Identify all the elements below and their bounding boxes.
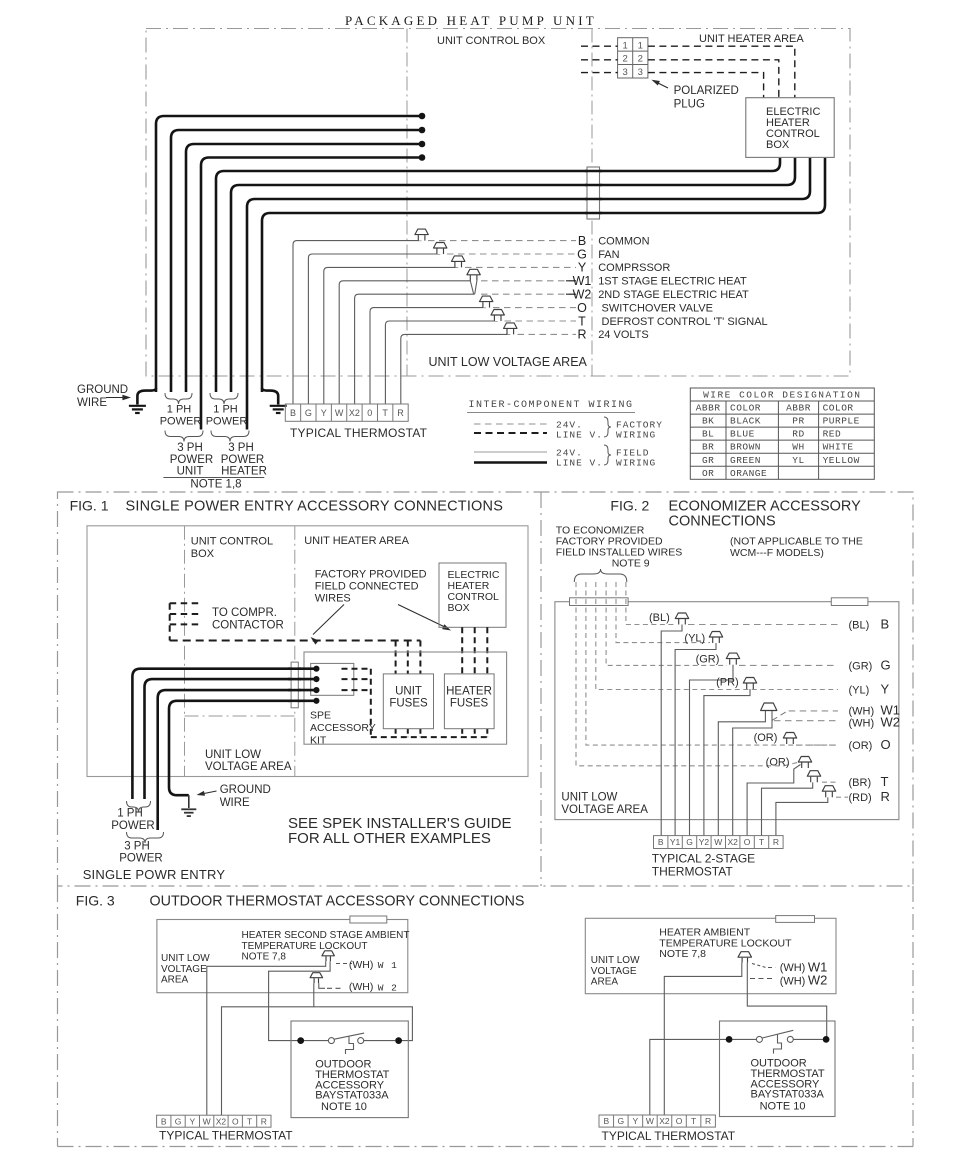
svg-text:(PR): (PR): [716, 677, 739, 689]
svg-text:X2: X2: [659, 1116, 670, 1126]
svg-text:R: R: [705, 1116, 711, 1126]
svg-text:0: 0: [367, 408, 372, 418]
svg-text:NOTE 10: NOTE 10: [321, 1101, 367, 1113]
svg-text:(GR): (GR): [696, 654, 720, 666]
svg-text:UNIT: UNIT: [177, 466, 204, 478]
svg-text:(NOT APPLICABLE TO THE: (NOT APPLICABLE TO THE: [730, 536, 863, 548]
svg-text:COLOR: COLOR: [730, 403, 761, 414]
svg-text:1: 1: [638, 40, 643, 51]
svg-text:(WH): (WH): [349, 981, 374, 993]
svg-text:W: W: [714, 837, 722, 847]
svg-text:WIRE: WIRE: [77, 397, 107, 409]
svg-text:TYPICAL 2-STAGE: TYPICAL 2-STAGE: [652, 852, 755, 866]
svg-text:BLACK: BLACK: [730, 416, 761, 427]
svg-text:B: B: [603, 1116, 609, 1126]
svg-text:AREA: AREA: [161, 975, 189, 986]
svg-text:W: W: [646, 1116, 654, 1126]
svg-text:GREEN: GREEN: [730, 455, 761, 466]
svg-text:WHITE: WHITE: [823, 442, 854, 453]
svg-text:SINGLE POWR ENTRY: SINGLE POWR ENTRY: [83, 867, 226, 882]
svg-text:W 1: W 1: [378, 960, 398, 971]
svg-text:OUTDOOR THERMOSTAT ACCESSORY C: OUTDOOR THERMOSTAT ACCESSORY CONNECTIONS: [150, 894, 525, 910]
svg-text:BROWN: BROWN: [730, 442, 761, 453]
svg-text:(GR): (GR): [849, 661, 873, 673]
svg-text:W: W: [203, 1116, 211, 1126]
svg-text:R: R: [577, 328, 586, 342]
svg-text:PURPLE: PURPLE: [823, 416, 860, 427]
svg-text:3: 3: [622, 67, 627, 78]
svg-text:(BL): (BL): [849, 620, 870, 632]
svg-text:R: R: [881, 789, 890, 804]
svg-text:X2: X2: [216, 1116, 227, 1126]
svg-text:ABBR: ABBR: [696, 403, 721, 414]
svg-text:OR: OR: [702, 468, 714, 479]
svg-text:T: T: [247, 1116, 252, 1126]
svg-text:(WH): (WH): [780, 962, 806, 974]
svg-text:3 PH: 3 PH: [124, 841, 150, 853]
svg-text:WIRING: WIRING: [616, 458, 656, 469]
svg-text:B: B: [658, 837, 664, 847]
svg-text:HEATER SECOND STAGE AMBIENT: HEATER SECOND STAGE AMBIENT: [242, 930, 410, 941]
svg-text:(WH): (WH): [849, 706, 875, 718]
svg-text:UNIT CONTROL BOX: UNIT CONTROL BOX: [437, 35, 546, 47]
svg-text:O: O: [676, 1116, 683, 1126]
svg-text:B: B: [881, 617, 890, 632]
svg-text:YL: YL: [792, 455, 804, 466]
svg-text:GROUND: GROUND: [220, 784, 271, 796]
svg-text:BL: BL: [702, 429, 714, 440]
svg-text:FAN: FAN: [598, 249, 619, 261]
svg-text:W 2: W 2: [378, 982, 398, 993]
svg-text:G: G: [881, 658, 891, 673]
svg-text:BAYSTAT033A: BAYSTAT033A: [751, 1089, 825, 1101]
svg-text:POWER: POWER: [221, 454, 264, 466]
svg-text:FIG. 1: FIG. 1: [70, 498, 109, 514]
svg-text:ORANGE: ORANGE: [730, 468, 767, 479]
svg-text:UNIT: UNIT: [395, 686, 422, 698]
svg-text:WIRING: WIRING: [616, 430, 656, 441]
svg-text:(BL): (BL): [649, 612, 670, 624]
svg-text:G: G: [618, 1116, 625, 1126]
svg-text:SINGLE POWER ENTRY ACCESSORY C: SINGLE POWER ENTRY ACCESSORY CONNECTIONS: [126, 499, 504, 515]
svg-text:NOTE 7,8: NOTE 7,8: [659, 948, 706, 960]
svg-text:3 PH: 3 PH: [177, 442, 203, 454]
svg-text:G: G: [577, 247, 587, 261]
svg-text:BOX: BOX: [448, 602, 470, 614]
svg-text:WH: WH: [792, 442, 804, 453]
svg-text:W: W: [335, 408, 344, 418]
svg-text:RED: RED: [823, 429, 842, 440]
svg-text:BK: BK: [702, 416, 714, 427]
svg-text:1: 1: [622, 40, 627, 51]
svg-text:UNIT LOW: UNIT LOW: [591, 955, 640, 966]
svg-text:Y: Y: [633, 1116, 639, 1126]
svg-text:TYPICAL THERMOSTAT: TYPICAL THERMOSTAT: [159, 1129, 293, 1143]
svg-text:RD: RD: [792, 429, 804, 440]
svg-text:CONNECTIONS: CONNECTIONS: [669, 514, 776, 530]
svg-text:FIG. 2: FIG. 2: [610, 498, 649, 514]
svg-text:(OR): (OR): [849, 740, 873, 752]
svg-text:W2: W2: [881, 715, 901, 730]
svg-text:(WH): (WH): [349, 959, 374, 971]
svg-text:CONTACTOR: CONTACTOR: [212, 620, 284, 632]
svg-text:VOLTAGE AREA: VOLTAGE AREA: [561, 804, 648, 816]
svg-text:3 PH: 3 PH: [228, 442, 254, 454]
svg-text:PR: PR: [792, 416, 804, 427]
svg-text:T: T: [382, 408, 388, 418]
svg-text:B: B: [578, 234, 586, 248]
svg-text:Y1: Y1: [670, 837, 681, 847]
svg-text:1 PH: 1 PH: [213, 404, 238, 416]
svg-text:BAYSTAT033A: BAYSTAT033A: [315, 1090, 389, 1102]
svg-text:FIELD CONNECTED: FIELD CONNECTED: [315, 581, 419, 593]
svg-text:FUSES: FUSES: [450, 698, 489, 710]
svg-text:T: T: [759, 837, 764, 847]
svg-text:W2: W2: [808, 973, 828, 988]
svg-text:W2: W2: [573, 288, 592, 302]
svg-text:24 VOLTS: 24 VOLTS: [598, 329, 649, 341]
svg-text:POWER: POWER: [111, 820, 154, 832]
svg-text:COLOR: COLOR: [823, 403, 854, 414]
svg-text:B: B: [290, 408, 296, 418]
svg-text:X2: X2: [349, 408, 360, 418]
svg-text:R: R: [397, 408, 404, 418]
svg-text:SWITCHOVER VALVE: SWITCHOVER VALVE: [602, 302, 713, 314]
svg-text:FACTORY PROVIDED: FACTORY PROVIDED: [315, 569, 427, 581]
svg-text:UNIT LOW VOLTAGE AREA: UNIT LOW VOLTAGE AREA: [429, 355, 588, 369]
svg-text:(RD): (RD): [849, 792, 872, 804]
svg-text:THERMOSTAT: THERMOSTAT: [652, 865, 734, 879]
svg-text:G: G: [686, 837, 693, 847]
svg-text:FIG. 3: FIG. 3: [76, 893, 115, 909]
svg-text:BOX: BOX: [191, 548, 215, 560]
svg-text:TO COMPR.: TO COMPR.: [212, 607, 277, 619]
svg-text:TYPICAL THERMOSTAT: TYPICAL THERMOSTAT: [602, 1129, 736, 1143]
svg-text:BOX: BOX: [766, 139, 790, 151]
svg-text:TYPICAL THERMOSTAT: TYPICAL THERMOSTAT: [290, 426, 428, 440]
svg-text:SPE: SPE: [310, 710, 331, 722]
svg-text:O: O: [232, 1116, 239, 1126]
svg-text:(WH): (WH): [849, 718, 875, 730]
svg-text:2: 2: [622, 54, 627, 65]
svg-text:NOTE 9: NOTE 9: [612, 558, 650, 570]
svg-text:GROUND: GROUND: [77, 384, 128, 396]
svg-text:POWER: POWER: [160, 416, 202, 428]
svg-text:(OR): (OR): [754, 732, 778, 744]
svg-text:X2: X2: [727, 837, 738, 847]
svg-text:YELLOW: YELLOW: [823, 455, 860, 466]
svg-text:VOLTAGE AREA: VOLTAGE AREA: [205, 761, 292, 773]
svg-text:VOLTAGE: VOLTAGE: [591, 966, 637, 977]
svg-text:PLUG: PLUG: [674, 99, 705, 111]
svg-text:O: O: [744, 837, 751, 847]
svg-text:T: T: [881, 774, 889, 789]
svg-text:COMPRSSOR: COMPRSSOR: [598, 262, 670, 274]
svg-text:NOTE 7,8: NOTE 7,8: [242, 952, 287, 963]
svg-text:UNIT LOW: UNIT LOW: [561, 792, 617, 804]
svg-text:VOLTAGE: VOLTAGE: [161, 964, 207, 975]
svg-text:UNIT CONTROL: UNIT CONTROL: [191, 536, 273, 548]
svg-text:(YL): (YL): [849, 685, 870, 697]
svg-text:ACCESSORY: ACCESSORY: [310, 722, 376, 734]
svg-text:TEMPERATURE LOCKOUT: TEMPERATURE LOCKOUT: [242, 941, 368, 952]
svg-text:W1: W1: [573, 274, 592, 288]
svg-text:POLARIZED: POLARIZED: [674, 85, 739, 97]
svg-text:NOTE 1,8: NOTE 1,8: [190, 479, 241, 491]
svg-text:Y: Y: [578, 261, 587, 275]
svg-text:GR: GR: [702, 455, 714, 466]
svg-text:T: T: [691, 1116, 696, 1126]
svg-text:B: B: [161, 1116, 167, 1126]
svg-text:1 PH: 1 PH: [117, 808, 143, 820]
svg-text:INTER-COMPONENT WIRING: INTER-COMPONENT WIRING: [468, 400, 633, 411]
svg-text:G: G: [305, 408, 312, 418]
svg-text:T: T: [578, 314, 586, 328]
svg-text:(WH): (WH): [780, 975, 806, 987]
svg-text:Y: Y: [321, 408, 327, 418]
svg-text:NOTE 10: NOTE 10: [760, 1101, 806, 1113]
svg-text:(OR): (OR): [766, 757, 790, 769]
svg-text:ECONOMIZER ACCESSORY: ECONOMIZER ACCESSORY: [669, 499, 862, 515]
svg-text:Y2: Y2: [699, 837, 710, 847]
svg-text:FOR ALL OTHER EXAMPLES: FOR ALL OTHER EXAMPLES: [288, 830, 491, 847]
svg-text:2: 2: [638, 54, 643, 65]
svg-text:FUSES: FUSES: [389, 698, 428, 710]
svg-text:HEATER: HEATER: [221, 466, 267, 478]
svg-text:HEATER: HEATER: [446, 686, 492, 698]
svg-text:DEFROST CONTROL 'T' SIGNAL: DEFROST CONTROL 'T' SIGNAL: [602, 316, 768, 328]
svg-text:WCM---F MODELS): WCM---F MODELS): [730, 547, 824, 559]
svg-text:UNIT HEATER AREA: UNIT HEATER AREA: [304, 535, 409, 547]
svg-text:WIRE: WIRE: [220, 797, 250, 809]
svg-text:PACKAGED HEAT PUMP UNIT: PACKAGED HEAT PUMP UNIT: [345, 13, 597, 28]
svg-text:Y: Y: [190, 1116, 196, 1126]
svg-text:BLUE: BLUE: [730, 429, 755, 440]
svg-text:POWER: POWER: [119, 853, 162, 865]
svg-text:AREA: AREA: [591, 977, 619, 988]
svg-text:1ST STAGE ELECTRIC HEAT: 1ST STAGE ELECTRIC HEAT: [598, 276, 747, 288]
svg-text:R: R: [261, 1116, 267, 1126]
svg-text:WIRES: WIRES: [315, 593, 351, 605]
svg-text:UNIT HEATER AREA: UNIT HEATER AREA: [699, 33, 804, 45]
svg-text:ABBR: ABBR: [786, 403, 811, 414]
svg-text:O: O: [881, 737, 891, 752]
svg-text:WIRE COLOR DESIGNATION: WIRE COLOR DESIGNATION: [703, 390, 861, 401]
svg-text:UNIT LOW: UNIT LOW: [161, 953, 210, 964]
svg-text:POWER: POWER: [206, 416, 248, 428]
svg-text:POWER: POWER: [170, 454, 213, 466]
svg-text:LINE V.: LINE V.: [556, 458, 603, 469]
svg-text:(YL): (YL): [684, 633, 705, 645]
svg-text:3: 3: [638, 67, 643, 78]
svg-text:UNIT LOW: UNIT LOW: [205, 749, 261, 761]
svg-text:COMMON: COMMON: [598, 235, 649, 247]
svg-text:2ND STAGE ELECTRIC HEAT: 2ND STAGE ELECTRIC HEAT: [598, 289, 749, 301]
svg-text:BR: BR: [702, 442, 714, 453]
svg-text:KIT: KIT: [310, 735, 327, 747]
svg-text:O: O: [577, 301, 587, 315]
svg-text:R: R: [773, 837, 779, 847]
svg-text:(BR): (BR): [849, 777, 872, 789]
svg-text:Y: Y: [881, 682, 890, 697]
svg-text:LINE V.: LINE V.: [556, 430, 603, 441]
svg-text:G: G: [175, 1116, 182, 1126]
svg-text:1 PH: 1 PH: [167, 404, 192, 416]
